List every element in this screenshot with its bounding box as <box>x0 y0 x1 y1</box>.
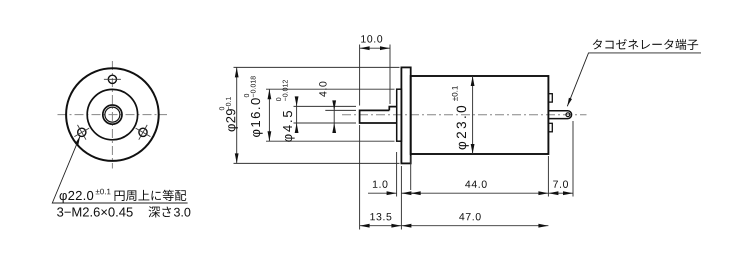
dim phi29 0/-0.1 flange diameter <box>234 66 400 68</box>
dim 10.0 shaft exposed length <box>359 45 361 106</box>
side view: output shaft with D-flat, phi4.5 <box>360 107 397 123</box>
dim 7.0 tacho terminal length <box>572 121 574 197</box>
front view centerlines (dash-dot) <box>58 61 168 169</box>
side view: motor terminal (upper) <box>548 94 552 102</box>
dim 47.0 mounting face to body rear <box>401 225 548 227</box>
side view centerline (dash-dot) <box>342 114 587 116</box>
dim 44.0 body length <box>410 156 412 190</box>
dim 4.0 shaft flat <box>325 109 356 111</box>
front view: flange outline circle phi29 <box>66 68 159 161</box>
hole centerline cross (lower-right hole) <box>136 125 151 140</box>
side view: motor terminal (lower) <box>548 123 552 132</box>
dim phi4.5 0/-0.012 shaft diameter <box>294 105 357 107</box>
front view: shaft circle phi4.5 <box>105 107 120 122</box>
dim 13.5 shaft tip to mounting face <box>359 125 361 230</box>
note line 2: 3-M2.6x0.45 depth 3.0 <box>57 207 133 216</box>
side view: pilot boss phi16 x 1.0 <box>397 89 402 141</box>
front view: bearing boss circle <box>103 105 122 124</box>
front view: M2.6 tapped hole (lower-left) <box>78 128 86 136</box>
front view: pilot circle phi16 <box>87 89 137 139</box>
dim phi16.0 0/-0.018 pilot diameter <box>266 88 395 90</box>
label text: tachogenerator terminal <box>593 39 698 50</box>
side view: tachogenerator eyelet terminal <box>548 111 571 119</box>
label leader: tachogenerator terminal <box>567 53 701 106</box>
side view: motor body phi23 x 44 <box>411 76 549 154</box>
note line 1: phi22.0 +/-0.1 bolt circle equally spaced <box>60 191 94 203</box>
hole centerline cross (lower-left hole) <box>74 125 89 140</box>
front view: M2.6 tapped hole (top) <box>108 75 116 83</box>
hole centerline cross (top hole) <box>104 78 121 80</box>
front view: M2.6 tapped hole (lower-right) <box>139 128 147 136</box>
leader line from lower-left hole to note text <box>52 136 187 203</box>
side view: mounting flange phi29 x 3 <box>401 67 410 163</box>
dim phi23.0 +/-0.1 body diameter <box>472 76 474 154</box>
dim 1.0 pilot boss protrusion <box>396 152 398 197</box>
